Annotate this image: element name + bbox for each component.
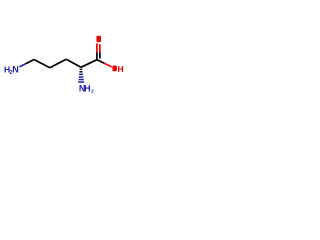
double bond C1=O main line black half [96, 53, 98, 60]
wire bond C1-OH red half [104, 63, 111, 67]
svg-text:N: N [12, 65, 19, 75]
wire bond C5-C4 [34, 60, 50, 68]
label hydroxyl O (solid glyph) [112, 66, 117, 72]
hashed wedge C2-NH2 dash 1 [80, 69, 83, 70]
wire bond C4-C3 [50, 59, 66, 68]
svg-text:H: H [118, 64, 124, 74]
double bond C1=O second line red half [99, 44, 101, 52]
wire bond C2-C1 [81, 60, 97, 68]
svg-text:2: 2 [91, 88, 94, 94]
background [0, 0, 130, 130]
wire bond C3-C2 [66, 59, 81, 67]
wire bond C1-OH black half [97, 60, 104, 64]
svg-text:H: H [84, 84, 91, 94]
hashed wedge C2-NH2 dash 4 [79, 76, 84, 78]
hashed wedge C2-NH2 dash 5 [79, 79, 84, 81]
hashed wedge C2-NH2 dash 6 [78, 81, 84, 83]
wire bond N-C5 blue half (amine side) [19, 64, 26, 67]
double bond C1=O main line red half [96, 43, 98, 52]
hashed wedge C2-NH2 dash 2 [79, 71, 82, 72]
wire bond N-C5 black half [26, 60, 34, 64]
label carbonyl O (solid glyph) [97, 36, 102, 43]
double bond C1=O second line black half [99, 53, 101, 59]
hashed wedge C2-NH2 dash 3 [79, 74, 83, 76]
